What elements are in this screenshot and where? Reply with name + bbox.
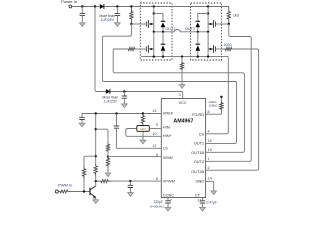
- label VMIN pin: [163, 155, 173, 160]
- junction rail divider branch: [95, 128, 97, 130]
- label pin number 1: [208, 157, 210, 161]
- ground below Q5 emitter: [93, 200, 99, 204]
- wire R10 to base: [70, 191, 91, 193]
- svg-text:0.47μF: 0.47μF: [207, 200, 217, 204]
- svg-text:OUT2: OUT2: [185, 27, 195, 31]
- svg-text:1kΩ: 1kΩ: [233, 14, 240, 18]
- junction VREF LS cap: [115, 112, 117, 114]
- svg-text:GND: GND: [195, 179, 204, 184]
- resistor R12 VPWM series: [96, 180, 114, 183]
- svg-text:1: 1: [208, 157, 210, 161]
- label pin number 15: [208, 148, 212, 152]
- junction collector node: [95, 180, 97, 182]
- wire OUT2 net (upper-right gate to pin1): [206, 24, 252, 161]
- diode D2 flyback upper left: [161, 21, 166, 32]
- junction VREF hall pullup: [142, 112, 144, 114]
- transistor Q5 NPN: [90, 186, 96, 199]
- label C7 value: [150, 200, 164, 208]
- label OUT2 pin: [194, 159, 204, 164]
- label pin number 16: [208, 139, 212, 143]
- wire top rail from Power In to diode D1: [72, 6, 100, 8]
- label pin number 4: [208, 130, 210, 134]
- transistor Q3 upper right MOSFET: [208, 14, 215, 32]
- junction rail at Q1 drain stub: [153, 5, 155, 7]
- svg-text:OUT2B: OUT2B: [191, 169, 204, 174]
- label C2 value: [99, 14, 115, 22]
- svg-text:1uF/25V: 1uF/25V: [101, 18, 115, 22]
- wire divider branch: [96, 129, 108, 143]
- resistor R9 base pullup: [82, 165, 85, 180]
- ground below hall: [140, 140, 146, 144]
- wire Q2 gate: [136, 48, 146, 50]
- wire FG/RD pin to pullup: [206, 111, 222, 115]
- svg-text:14: 14: [208, 177, 212, 181]
- label CT pin: [195, 192, 201, 197]
- wire VREF rail down left: [95, 114, 97, 164]
- svg-text:13: 13: [152, 109, 156, 113]
- label R4 value: [223, 43, 232, 47]
- junction bottom rail D5: [197, 55, 199, 57]
- svg-text:OUT1: OUT1: [194, 140, 204, 145]
- svg-text:VREF: VREF: [163, 111, 174, 116]
- svg-text:FG/RD: FG/RD: [192, 112, 204, 117]
- svg-text:AM4967: AM4967: [173, 118, 193, 124]
- wire Q3 drain stub: [207, 7, 209, 14]
- resistor R4 gate 100ohm right: [224, 47, 233, 50]
- svg-text:8: 8: [208, 110, 210, 114]
- label R3 value: [233, 14, 240, 18]
- svg-text:6: 6: [156, 177, 158, 181]
- node PWM In input terminal: [55, 182, 72, 193]
- label pin number 10: [152, 132, 156, 136]
- wire left power rail down: [95, 7, 106, 92]
- wire VCC rail to IC pin3: [110, 92, 182, 99]
- junction Q3 drain tee: [207, 12, 209, 14]
- svg-text:100kΩ: 100kΩ: [208, 104, 218, 108]
- label GND pin: [195, 179, 204, 184]
- resistor R5 FG/RD pullup: [220, 102, 223, 111]
- svg-text:(f=30kHz): (f=30kHz): [150, 204, 164, 208]
- svg-text:VMIN: VMIN: [163, 155, 173, 160]
- H-bridge module left dashed box: [140, 3, 172, 60]
- label pin number 13: [152, 109, 156, 113]
- diode D5 flyback lower right: [196, 32, 201, 57]
- capacitor C1 input bypass: [80, 7, 85, 23]
- wire R8 to ground: [107, 168, 109, 173]
- svg-text:Power In: Power In: [61, 0, 77, 4]
- label pin number 5: [156, 153, 158, 157]
- label pin number 14: [208, 177, 212, 181]
- ground below C3: [122, 104, 128, 108]
- label HIN- pin: [163, 125, 172, 130]
- svg-text:OUT1B: OUT1B: [191, 150, 204, 155]
- capacitor C2 More than 1uF/25V: [115, 7, 120, 23]
- label pin number 7: [170, 199, 172, 203]
- node Power In input terminal: [61, 0, 77, 8]
- wire D2 branch from tee: [154, 14, 163, 22]
- junction gate node left upper: [130, 23, 132, 25]
- op-amp U1 AM4967 driver IC: [161, 99, 205, 198]
- label pin number 8: [208, 110, 210, 114]
- label pin number 11: [198, 199, 202, 203]
- transistor Q4 lower right MOSFET: [208, 32, 215, 57]
- wire Q1 drain stub: [153, 7, 155, 14]
- wire Q5 collector: [95, 181, 97, 186]
- ground at GND pin: [211, 191, 217, 195]
- resistor R10 PWM series: [58, 190, 69, 193]
- svg-text:100Ω: 100Ω: [223, 43, 232, 47]
- junction Q1 drain tee: [153, 12, 155, 14]
- label OUT1B pin: [191, 150, 204, 155]
- label VPWM pin: [163, 179, 175, 184]
- wire GND pin to ground: [206, 181, 214, 191]
- wire R7 to mid: [107, 152, 109, 156]
- label C3 value: [102, 96, 118, 104]
- wire R9 to base node: [83, 179, 85, 192]
- svg-text:COSC: COSC: [163, 192, 174, 197]
- wire OUT1 to OUT2 with hump: [172, 30, 191, 32]
- wire Q5 emitter stub: [95, 197, 97, 200]
- capacitor C6 VPWM filter: [128, 181, 133, 193]
- junction OUT1 Q1: [153, 31, 155, 33]
- svg-text:PWM In: PWM In: [58, 182, 72, 187]
- junction VCC rail at C3: [123, 90, 125, 92]
- label LS pin: [163, 145, 168, 150]
- label pin number 12: [152, 144, 156, 148]
- ground below C4: [79, 123, 85, 127]
- label FG/RD pin: [192, 112, 204, 117]
- wire COSC pin7 stub: [167, 198, 169, 201]
- label VREF pin: [163, 111, 174, 116]
- capacitor C5 VREF to LS: [114, 114, 119, 149]
- svg-text:2: 2: [208, 166, 210, 170]
- svg-text:LS: LS: [163, 145, 168, 150]
- svg-text:OUT1: OUT1: [165, 27, 175, 31]
- node R5 top terminal dot: [220, 96, 222, 98]
- diode D6 power to VCC: [106, 89, 110, 94]
- wire OUT1B net loop (lower-left gate to pin15): [113, 49, 244, 152]
- wire VREF line: [82, 113, 161, 115]
- capacitor C3 More than 1uF/25V: [122, 92, 127, 105]
- node OUT2 line in right box: [191, 31, 209, 33]
- svg-text:9: 9: [156, 123, 158, 127]
- ground below Rcs: [179, 85, 185, 89]
- junction gate node right upper: [228, 23, 230, 25]
- node OUT1 line in left box: [154, 31, 172, 33]
- wire R5 top stub: [220, 97, 222, 102]
- resistor R2 gate 100ohm left: [127, 47, 136, 50]
- resistor R1 gate pullup left: [130, 7, 133, 25]
- junction top rail at C2: [116, 5, 118, 7]
- junction top rail at R1 pullup: [130, 5, 132, 7]
- label R5 value: [208, 100, 218, 108]
- label OUT1 pin: [194, 140, 204, 145]
- junction base node: [83, 190, 85, 192]
- wire top rail through left box: [140, 6, 172, 8]
- resistor R3 1k pullup right: [227, 7, 230, 25]
- ground below C2: [115, 23, 121, 27]
- wire LS pin12: [117, 147, 162, 149]
- label COSC pin: [163, 192, 174, 197]
- svg-text:12: 12: [152, 144, 156, 148]
- wire base pullup branch: [84, 156, 96, 164]
- svg-text:VPWM: VPWM: [163, 179, 175, 184]
- wire bridge bottom rail: [141, 56, 228, 58]
- svg-text:HIN+: HIN+: [163, 133, 173, 138]
- wire OUT2B net (lower-right gate to pin2): [206, 49, 259, 170]
- junction on top rail at left branch rail: [94, 5, 96, 7]
- ground below C7: [165, 207, 171, 211]
- ground below C6: [128, 193, 134, 197]
- junction bottom rail D3: [162, 55, 164, 57]
- diode D4 flyback upper right: [196, 21, 201, 32]
- svg-text:3: 3: [178, 93, 180, 97]
- label C8 value: [207, 200, 217, 204]
- wire VPWM line: [112, 180, 161, 182]
- label OUT2B pin: [191, 169, 204, 174]
- wire VMIN pin5: [108, 156, 161, 158]
- label CS pin: [199, 132, 205, 137]
- wire Q4 gate to R4: [216, 48, 225, 50]
- svg-text:VCC: VCC: [179, 100, 187, 105]
- label pin number 2: [208, 166, 210, 170]
- label pin number 6: [156, 177, 158, 181]
- svg-text:16: 16: [208, 139, 212, 143]
- wire hall to HIN- pin9: [149, 128, 161, 130]
- svg-text:4: 4: [208, 130, 210, 134]
- junction OUT2 D4: [197, 31, 199, 33]
- junction OUT2 Q3: [207, 31, 209, 33]
- diode D1 power: [100, 4, 104, 9]
- H-bridge module right dashed box: [191, 3, 222, 60]
- wire hall ground stub: [142, 132, 144, 140]
- label pin number 9: [156, 123, 158, 127]
- junction VREF left rail: [95, 112, 97, 114]
- diode D3 flyback lower left: [161, 32, 166, 57]
- ground below R8: [105, 173, 111, 177]
- junction rail at Q3 drain stub: [207, 5, 209, 7]
- ground below C1: [80, 23, 86, 27]
- sensor HG hall element: [137, 126, 150, 132]
- junction OUT1 D2: [162, 31, 164, 33]
- svg-text:10: 10: [152, 132, 156, 136]
- svg-text:15: 15: [208, 148, 212, 152]
- svg-text:HIN-: HIN-: [163, 125, 172, 130]
- svg-text:OUT2: OUT2: [194, 159, 204, 164]
- capacitor C8 CT: [200, 201, 205, 208]
- svg-text:1uF/25V: 1uF/25V: [104, 100, 118, 104]
- resistor R8 divider bottom: [106, 157, 109, 168]
- junction on top rail at C1: [81, 5, 83, 7]
- junction VPWM cap: [129, 180, 131, 182]
- wire top rail diode to bridge: [104, 6, 140, 8]
- capacitor C4 on VREF: [79, 114, 84, 124]
- resistor R11 collector pullup: [94, 164, 97, 181]
- capacitor C7 COSC: [165, 201, 170, 208]
- junction bottom rail Q4 source: [207, 55, 209, 57]
- junction bottom rail Rcs: [181, 55, 183, 57]
- label pin3: [178, 93, 180, 97]
- label OUT1: [165, 27, 175, 31]
- transistor Q1 upper left MOSFET: [146, 14, 153, 32]
- transistor Q2 lower left MOSFET: [146, 32, 153, 57]
- svg-text:Hall: Hall: [141, 127, 146, 131]
- junction rail base branch: [95, 155, 97, 157]
- resistor R7 divider top: [106, 143, 109, 152]
- ground below C8: [200, 207, 206, 211]
- label VCC pin: [179, 100, 187, 105]
- wire OUT1 net loop (upper-left gate to pin16): [102, 24, 236, 143]
- junction bottom rail Q2 source: [153, 55, 155, 57]
- resistor Rcs current sense: [180, 57, 183, 85]
- resistor R6 hall bias: [141, 114, 144, 126]
- wire hall to HIN+ pin10 loop: [126, 129, 162, 137]
- junction divider mid VMIN: [107, 155, 109, 157]
- wire CT pin11 stub: [202, 198, 204, 201]
- wire Q3 gate: [216, 23, 229, 25]
- svg-text:CS: CS: [199, 132, 205, 137]
- wire D4 branch from tee: [198, 14, 208, 22]
- wire top rail through right box: [172, 6, 229, 8]
- label OUT2: [185, 27, 195, 31]
- label HIN+ pin: [163, 133, 173, 138]
- svg-text:CT: CT: [195, 192, 201, 197]
- wire CS net (bottom rail to pin4): [206, 57, 229, 134]
- wire Q1 gate: [131, 23, 146, 25]
